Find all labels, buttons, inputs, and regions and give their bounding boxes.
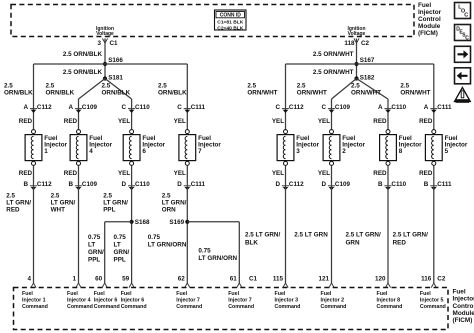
svg-text:RED: RED xyxy=(419,170,433,177)
svg-text:C110: C110 xyxy=(391,181,406,188)
svg-text:B: B xyxy=(424,181,429,188)
svg-text:C2: C2 xyxy=(437,276,446,283)
svg-text:Control: Control xyxy=(453,303,474,310)
node fuel injector 4 command pin label xyxy=(67,291,93,310)
pin 118 label xyxy=(344,40,355,47)
svg-text:WHT: WHT xyxy=(51,206,65,213)
wire color YEL top inj7 xyxy=(174,118,186,125)
svg-text:ORN/BLK: ORN/BLK xyxy=(46,89,75,96)
wire col8 drop xyxy=(433,64,435,130)
wire label 0.75 LT GRN/ORN pin62 xyxy=(148,234,187,249)
toolbar next arrow button xyxy=(455,46,471,62)
wire label 2.5 LT GRN xyxy=(294,232,328,239)
splice S168 xyxy=(130,219,151,226)
fork pin 121 xyxy=(329,283,334,288)
svg-text:B: B xyxy=(378,181,383,188)
svg-text:2.5 LT GRN/: 2.5 LT GRN/ xyxy=(346,232,381,239)
svg-text:LT: LT xyxy=(114,241,121,248)
FICM bottom module label xyxy=(453,288,474,324)
svg-text:LT GRN/ORN: LT GRN/ORN xyxy=(198,255,237,262)
wire label 2.5 ORN/WHT col7 xyxy=(351,83,381,97)
wire label 0.75 LT GRN/PPL pin59 xyxy=(114,234,130,263)
svg-text:120: 120 xyxy=(375,276,386,283)
svg-text:8: 8 xyxy=(399,148,403,155)
svg-text:D: D xyxy=(275,181,280,188)
pin 121 label xyxy=(318,276,329,283)
svg-text:LT: LT xyxy=(88,241,95,248)
fork pin 61 xyxy=(237,283,242,288)
wire inj5 to pin 116 xyxy=(433,165,435,283)
svg-text:Command: Command xyxy=(275,304,301,310)
svg-text:CONN ID: CONN ID xyxy=(220,13,242,19)
svg-text:RED: RED xyxy=(64,170,78,177)
wire S182 branch to col6 xyxy=(332,79,357,130)
svg-text:ORN/WHT: ORN/WHT xyxy=(247,89,277,96)
svg-text:60: 60 xyxy=(95,276,103,283)
svg-text:Fuel: Fuel xyxy=(94,291,105,297)
wire color YEL bottom inj2 xyxy=(318,170,330,177)
pin 62 label xyxy=(178,276,186,283)
inline connector C111 top col inj7 xyxy=(177,104,205,113)
svg-text:Command: Command xyxy=(94,304,120,310)
svg-text:YEL: YEL xyxy=(318,170,330,177)
svg-text:ORN/WHT: ORN/WHT xyxy=(297,89,327,96)
svg-text:1: 1 xyxy=(44,148,48,155)
wire label 2.5 LT GRN/RED right xyxy=(393,232,428,247)
svg-text:61: 61 xyxy=(230,276,238,283)
wire color RED top inj8 xyxy=(373,118,387,125)
svg-text:C: C xyxy=(464,12,468,18)
svg-text:2: 2 xyxy=(342,148,346,155)
svg-text:Injector 1: Injector 1 xyxy=(22,298,46,304)
wire label 2.5 LT GRN/ORN xyxy=(162,193,187,214)
wire label 2.5 ORN/BLK col4 xyxy=(158,83,187,97)
svg-text:C112: C112 xyxy=(37,181,52,188)
svg-text:3: 3 xyxy=(97,40,101,47)
fork pin 62 xyxy=(185,283,190,288)
svg-text:GRN/: GRN/ xyxy=(114,249,130,256)
node fuel injector 1 command pin label xyxy=(22,291,48,310)
wire color RED top inj5 xyxy=(419,118,433,125)
svg-text:Command: Command xyxy=(67,304,93,310)
svg-text:C2=40 BLK: C2=40 BLK xyxy=(217,25,243,31)
svg-text:Fuel: Fuel xyxy=(228,291,239,297)
node fuel injector 5 command pin label xyxy=(420,291,446,310)
svg-text:C109: C109 xyxy=(82,104,98,111)
wire label 2.5 ORN/BLK upper xyxy=(63,51,103,58)
wire label 0.75 LT GRN/PPL pin60 xyxy=(88,234,104,263)
fuel injector 2 xyxy=(323,130,365,166)
inline connector C112 top col inj1 xyxy=(23,104,52,113)
svg-text:C110: C110 xyxy=(135,104,150,111)
pin 1 label xyxy=(72,276,76,283)
svg-text:Injector: Injector xyxy=(418,9,442,16)
fork pin 116 xyxy=(431,283,436,288)
svg-text:RED: RED xyxy=(19,170,33,177)
ignition voltage label right xyxy=(347,26,365,37)
wire label 2.5 ORN/BLK mid xyxy=(63,69,103,76)
wire S167 bus xyxy=(286,63,434,65)
svg-text:C110: C110 xyxy=(135,181,150,188)
svg-text:C111: C111 xyxy=(437,104,452,111)
svg-text:RED: RED xyxy=(373,170,387,177)
module pin fork C2-118 xyxy=(354,38,359,43)
svg-text:S167: S167 xyxy=(360,57,375,64)
svg-text:Fuel: Fuel xyxy=(176,291,187,297)
node fuel injector 6 command pin label xyxy=(94,291,120,310)
svg-text:ORN/BLK: ORN/BLK xyxy=(102,89,131,96)
svg-text:59: 59 xyxy=(122,276,130,283)
svg-text:RED: RED xyxy=(64,118,78,125)
wire label 2.5 ORN/BLK col3 xyxy=(102,83,131,97)
wire color RED bottom inj1 xyxy=(19,170,33,177)
svg-text:C110: C110 xyxy=(391,104,406,111)
inline connector C112 top col inj3 xyxy=(275,104,304,113)
wire label 2.5 ORN/WHT upper xyxy=(313,51,354,58)
svg-text:Command: Command xyxy=(22,304,48,310)
svg-text:Fuel: Fuel xyxy=(420,291,431,297)
wire color YEL bottom inj6 xyxy=(118,170,130,177)
svg-text:Injector 7: Injector 7 xyxy=(228,298,252,304)
fuel injector 6 xyxy=(123,130,165,166)
node fuel injector 6 command pin label xyxy=(121,291,147,310)
svg-text:Injector 2: Injector 2 xyxy=(321,298,345,304)
svg-text:Fuel: Fuel xyxy=(22,291,33,297)
wire inj4 to pin 1 xyxy=(78,165,80,283)
wire color RED top inj1 xyxy=(19,118,33,125)
svg-text:1: 1 xyxy=(72,276,76,283)
fuel injector 5 xyxy=(425,130,467,166)
svg-text:C112: C112 xyxy=(289,181,304,188)
svg-text:C109: C109 xyxy=(82,181,98,188)
svg-text:A: A xyxy=(68,104,73,111)
wire S182 branch to col7 xyxy=(357,79,389,130)
svg-text:PPL: PPL xyxy=(88,256,100,263)
svg-text:3: 3 xyxy=(296,148,300,155)
wire color RED bottom inj8 xyxy=(373,170,387,177)
fork pin 1 xyxy=(76,283,81,288)
svg-text:2.5 ORN/WHT: 2.5 ORN/WHT xyxy=(313,51,354,58)
svg-text:PPL: PPL xyxy=(114,256,126,263)
inline connector C112 bottom col inj3 xyxy=(275,181,304,190)
pin 4 label xyxy=(27,276,31,283)
wire label 2.5 LT GRN/PPL xyxy=(103,193,128,214)
wire S169 to pin 61 xyxy=(187,222,239,283)
svg-text:C: C xyxy=(465,36,469,42)
svg-text:115: 115 xyxy=(273,276,284,283)
svg-text:0.75: 0.75 xyxy=(114,234,127,241)
svg-text:0.75: 0.75 xyxy=(88,234,101,241)
svg-text:Injector 6: Injector 6 xyxy=(94,298,118,304)
svg-text:Injector: Injector xyxy=(453,296,474,303)
wire inj7 to pin 62 xyxy=(186,165,188,283)
wire inj1 to pin 4 xyxy=(33,165,35,283)
svg-text:C109: C109 xyxy=(335,181,351,188)
svg-text:7: 7 xyxy=(198,148,202,155)
svg-text:S182: S182 xyxy=(360,75,375,82)
wire col4 drop xyxy=(186,64,188,130)
svg-text:Injector 3: Injector 3 xyxy=(275,298,299,304)
wire label 2.5 ORN/WHT col6 xyxy=(297,83,327,97)
FICM top module dashed box xyxy=(11,5,414,37)
svg-text:ORN/BLK: ORN/BLK xyxy=(4,89,33,96)
svg-text:4: 4 xyxy=(27,276,31,283)
svg-text:A: A xyxy=(424,104,429,111)
wire color YEL bottom inj7 xyxy=(174,170,186,177)
pin 120 label xyxy=(375,276,386,283)
node fuel injector 2 command pin label xyxy=(321,291,347,310)
svg-text:C1: C1 xyxy=(249,276,258,283)
svg-text:Module: Module xyxy=(453,310,474,317)
svg-text:BLK: BLK xyxy=(245,240,258,247)
wire inj8 to pin 120 xyxy=(387,165,389,283)
wire color RED bottom inj4 xyxy=(64,170,78,177)
wire color RED top inj4 xyxy=(64,118,78,125)
svg-text:Fuel: Fuel xyxy=(275,291,286,297)
svg-text:0.75: 0.75 xyxy=(198,247,211,254)
svg-text:S166: S166 xyxy=(108,57,123,64)
pin 116 label xyxy=(421,276,432,283)
svg-text:D: D xyxy=(321,181,326,188)
svg-text:6: 6 xyxy=(142,148,146,155)
ignition voltage label left xyxy=(96,26,114,37)
pin 60 label xyxy=(95,276,103,283)
svg-text:ORN: ORN xyxy=(162,206,176,213)
svg-text:D: D xyxy=(122,181,127,188)
FICM bottom module dashed box xyxy=(14,288,449,330)
svg-text:C: C xyxy=(122,104,127,111)
splice S182 xyxy=(354,75,375,82)
node fuel injector 3 command pin label xyxy=(275,291,301,310)
svg-text:C: C xyxy=(275,104,280,111)
fork pin 59 xyxy=(129,283,134,288)
svg-text:Fuel: Fuel xyxy=(418,2,431,9)
svg-text:RED: RED xyxy=(6,206,20,213)
svg-text:C: C xyxy=(321,104,326,111)
svg-text:Injector 8: Injector 8 xyxy=(377,298,401,304)
svg-text:2.5 LT GRN/: 2.5 LT GRN/ xyxy=(245,232,280,239)
CONN ID table xyxy=(215,10,247,31)
inline connector C109 top col inj2 xyxy=(321,104,350,113)
inline connector C110 bottom col inj8 xyxy=(378,181,407,190)
svg-text:S181: S181 xyxy=(108,75,123,82)
connector C2 label bottom xyxy=(437,276,446,283)
pin 59 label xyxy=(122,276,130,283)
wire color YEL bottom inj3 xyxy=(272,170,284,177)
node fuel injector 7 command pin label xyxy=(228,291,254,310)
svg-text:C111: C111 xyxy=(191,181,206,188)
connector C2 label top xyxy=(361,40,370,47)
toolbar DESC button xyxy=(455,25,471,42)
svg-text:S168: S168 xyxy=(135,219,150,226)
svg-text:C112: C112 xyxy=(37,104,52,111)
fuel injector 4 xyxy=(70,130,112,166)
inline connector C109 top col inj4 xyxy=(68,104,97,113)
svg-text:ORN/WHT: ORN/WHT xyxy=(351,89,381,96)
inline connector C111 bottom col inj5 xyxy=(424,181,452,190)
splice S169 xyxy=(169,219,189,226)
svg-text:Command: Command xyxy=(121,304,147,310)
wire label 2.5 LT GRN/BLK xyxy=(245,232,280,247)
svg-text:C112: C112 xyxy=(289,104,304,111)
wire color RED bottom inj5 xyxy=(419,170,433,177)
svg-text:RED: RED xyxy=(419,118,433,125)
splice S166 xyxy=(103,57,124,66)
svg-text:0.75: 0.75 xyxy=(148,234,161,241)
wire col1 drop xyxy=(33,64,35,130)
wire label 2.5 ORN/WHT mid xyxy=(313,69,354,76)
svg-text:121: 121 xyxy=(318,276,329,283)
svg-text:4: 4 xyxy=(89,148,93,155)
splice S167 xyxy=(354,57,375,66)
wire label 2.5 LT GRN/RED xyxy=(6,193,31,214)
wire inj2 to pin 121 xyxy=(331,165,333,283)
svg-text:Voltage: Voltage xyxy=(348,31,366,37)
wire inj6 to pin 59 xyxy=(131,165,133,283)
FICM top module label xyxy=(418,2,442,37)
inline connector C110 bottom col inj6 xyxy=(122,181,151,190)
wire label 2.5 ORN/WHT col8 xyxy=(400,83,430,97)
svg-text:C109: C109 xyxy=(335,104,351,111)
svg-text:62: 62 xyxy=(178,276,186,283)
svg-text:C: C xyxy=(177,104,182,111)
splice S181 xyxy=(103,75,124,82)
wire color YEL top inj2 xyxy=(318,118,330,125)
toolbar LOC button xyxy=(455,3,471,19)
inline connector C110 top col inj8 xyxy=(378,104,407,113)
pin 115 label xyxy=(273,276,284,283)
pin 61 label xyxy=(230,276,238,283)
fork pin 120 xyxy=(385,283,390,288)
svg-text:2.5 LT GRN/: 2.5 LT GRN/ xyxy=(393,232,428,239)
svg-text:Fuel: Fuel xyxy=(121,291,132,297)
svg-text:Injector 4: Injector 4 xyxy=(67,298,91,304)
wire label 0.75 LT GRN/ORN pin61 xyxy=(198,247,237,261)
svg-text:A: A xyxy=(378,104,383,111)
node fuel injector 8 command pin label xyxy=(377,291,403,310)
pin 3 label xyxy=(97,40,101,47)
svg-text:Command: Command xyxy=(377,304,403,310)
svg-text:Fuel: Fuel xyxy=(67,291,78,297)
svg-text:YEL: YEL xyxy=(318,118,330,125)
module pin fork C1-3 xyxy=(102,38,107,43)
svg-text:118: 118 xyxy=(344,40,355,47)
wire label 2.5 LT GRN/GRN xyxy=(346,232,381,247)
svg-text:RED: RED xyxy=(393,240,407,247)
svg-text:Voltage: Voltage xyxy=(96,31,114,37)
inline connector C111 top col inj5 xyxy=(424,104,452,113)
svg-text:Command: Command xyxy=(176,304,202,310)
svg-text:2.5 ORN/BLK: 2.5 ORN/BLK xyxy=(63,69,103,76)
svg-text:YEL: YEL xyxy=(272,170,284,177)
svg-text:Command: Command xyxy=(321,304,347,310)
fork pin 60 xyxy=(102,283,107,288)
wire label 2.5 ORN/BLK col1 xyxy=(4,83,33,97)
svg-text:GRN: GRN xyxy=(346,240,360,247)
inline connector C112 bottom col inj1 xyxy=(23,181,52,190)
wire S168 to pin 60 xyxy=(105,222,132,283)
wire label 2.5 ORN/WHT col5 xyxy=(247,83,277,97)
inline connector C111 bottom col inj7 xyxy=(177,181,205,190)
svg-text:YEL: YEL xyxy=(174,118,186,125)
wire S166 bus xyxy=(34,63,188,65)
svg-text:Fuel: Fuel xyxy=(453,288,466,295)
svg-text:2.5 ORN/BLK: 2.5 ORN/BLK xyxy=(63,51,103,58)
wire color YEL top inj3 xyxy=(272,118,284,125)
wire C1 pin 3 feed xyxy=(104,39,106,79)
svg-text:Command: Command xyxy=(420,304,446,310)
svg-text:YEL: YEL xyxy=(174,170,186,177)
svg-text:Command: Command xyxy=(228,304,254,310)
svg-text:RED: RED xyxy=(373,118,387,125)
wire S181 branch to col3 xyxy=(105,79,132,130)
fuel injector 3 xyxy=(277,130,319,166)
svg-text:RED: RED xyxy=(19,118,33,125)
svg-text:ORN/WHT: ORN/WHT xyxy=(400,89,430,96)
svg-text:Injector 5: Injector 5 xyxy=(420,298,444,304)
svg-text:C1=81 BLK: C1=81 BLK xyxy=(217,20,243,26)
connector C1 label bottom xyxy=(249,276,258,283)
svg-text:Fuel: Fuel xyxy=(321,291,332,297)
fuel injector 1 xyxy=(25,130,67,166)
svg-text:YEL: YEL xyxy=(272,118,284,125)
fork pin 115 xyxy=(283,283,288,288)
svg-text:Injector 6: Injector 6 xyxy=(121,298,145,304)
svg-text:GRN/: GRN/ xyxy=(88,249,104,256)
wire C2 pin 118 feed xyxy=(356,39,358,79)
fuel injector 7 xyxy=(179,130,221,166)
svg-text:LT GRN/ORN: LT GRN/ORN xyxy=(148,241,187,248)
inline connector C110 top col inj6 xyxy=(122,104,151,113)
svg-text:Module: Module xyxy=(418,23,441,30)
svg-text:YEL: YEL xyxy=(118,170,130,177)
svg-text:S169: S169 xyxy=(169,219,184,226)
svg-text:Injector 7: Injector 7 xyxy=(176,298,200,304)
svg-text:C111: C111 xyxy=(437,181,452,188)
wire label 2.5 ORN/BLK col2 xyxy=(46,83,75,97)
svg-text:Fuel: Fuel xyxy=(377,291,388,297)
svg-text:Control: Control xyxy=(418,16,441,23)
svg-text:C111: C111 xyxy=(191,104,206,111)
connector C1 label top xyxy=(110,40,119,47)
wire S181 branch to col2 xyxy=(79,79,106,130)
svg-text:A: A xyxy=(23,104,28,111)
svg-text:YEL: YEL xyxy=(118,118,130,125)
svg-text:ORN/BLK: ORN/BLK xyxy=(158,89,187,96)
svg-text:D: D xyxy=(177,181,182,188)
svg-text:PPL: PPL xyxy=(103,206,115,213)
wire inj3 to pin 115 xyxy=(285,165,287,283)
svg-text:B: B xyxy=(68,181,73,188)
svg-text:116: 116 xyxy=(421,276,432,283)
svg-text:5: 5 xyxy=(445,148,449,155)
inline connector C109 bottom col inj4 xyxy=(68,181,97,190)
fork pin 4 xyxy=(31,283,36,288)
svg-text:2.5 ORN/WHT: 2.5 ORN/WHT xyxy=(313,69,354,76)
wire label 2.5 LT GRN/WHT xyxy=(51,193,76,214)
svg-text:2.5 LT GRN: 2.5 LT GRN xyxy=(294,232,328,239)
node fuel injector 7 command pin label xyxy=(176,291,202,310)
svg-text:C2: C2 xyxy=(361,40,370,47)
toolbar prev arrow button xyxy=(455,68,471,84)
toolbar caution icon xyxy=(455,88,471,103)
svg-text:C1: C1 xyxy=(110,40,119,47)
wire color YEL top inj6 xyxy=(118,118,130,125)
svg-text:(FICM): (FICM) xyxy=(418,30,438,37)
wire col5 drop xyxy=(285,64,287,130)
svg-text:(FICM): (FICM) xyxy=(453,317,473,324)
svg-text:B: B xyxy=(23,181,28,188)
